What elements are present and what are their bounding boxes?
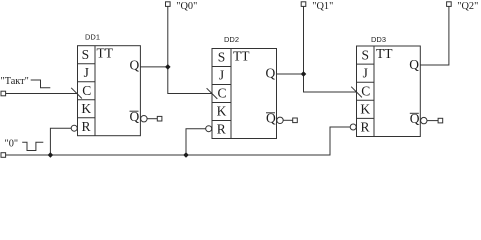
- junction node Q1: [301, 71, 307, 77]
- inversion bubble R (DD1): [71, 125, 77, 131]
- svg-text:Q: Q: [266, 65, 276, 80]
- terminal stub notQ DD3: [438, 118, 443, 123]
- svg-text:"Q2": "Q2": [457, 1, 478, 12]
- svg-text:"0": "0": [5, 139, 19, 150]
- inversion bubble notQ (DD3): [421, 117, 427, 123]
- svg-text:Q: Q: [409, 57, 419, 72]
- junction on bus at DD1 R: [48, 152, 54, 158]
- wire Q of DD3 to Q2 terminal: [420, 6, 449, 65]
- junction on bus at DD2 R: [183, 152, 189, 158]
- flip-flop DD1: [78, 46, 141, 136]
- terminal 0: [1, 153, 6, 158]
- wire Q of DD2 to node: [277, 73, 304, 75]
- svg-text:Q: Q: [130, 57, 140, 72]
- svg-text:C: C: [361, 84, 370, 99]
- svg-text:"Q1": "Q1": [312, 1, 333, 12]
- svg-text:R: R: [360, 120, 369, 135]
- wire bus to R of DD1: [50, 128, 71, 155]
- terminal stub notQ DD2: [293, 118, 298, 123]
- svg-text:K: K: [217, 104, 227, 119]
- pin notQ (DD1): [130, 109, 140, 124]
- terminal Q1: [301, 2, 306, 7]
- svg-text:K: K: [81, 101, 91, 116]
- inversion bubble R (DD3): [350, 124, 356, 130]
- flip-flop DD3: [357, 46, 421, 137]
- inversion bubble notQ (DD2): [277, 117, 283, 123]
- wire notQ stub DD2: [283, 119, 293, 121]
- pin notQ (DD2): [266, 111, 276, 126]
- svg-text:R: R: [81, 119, 90, 134]
- terminal Q2: [447, 2, 452, 7]
- svg-text:TT: TT: [97, 46, 114, 61]
- terminal Takt: [1, 91, 6, 96]
- svg-text:S: S: [218, 50, 226, 65]
- wire node up to Q0 terminal: [167, 6, 169, 67]
- svg-text:S: S: [362, 47, 370, 62]
- inversion bubble notQ (DD1): [141, 116, 147, 122]
- wire node down to C of DD3: [304, 74, 357, 92]
- svg-text:J: J: [84, 65, 89, 80]
- svg-text:DD2: DD2: [224, 35, 239, 44]
- wire bus to R of DD2: [186, 129, 206, 155]
- dynamic input marker C (DD2): [207, 88, 218, 99]
- wire node up to Q1 terminal: [303, 6, 305, 74]
- svg-text:DD3: DD3: [371, 35, 386, 44]
- svg-text:"Такт": "Такт": [1, 76, 29, 87]
- terminal Q0: [166, 2, 171, 7]
- waveform symbol 0: [22, 142, 43, 150]
- svg-text:K: K: [360, 102, 370, 117]
- terminal stub notQ DD1: [157, 116, 162, 121]
- inversion bubble R (DD2): [206, 126, 212, 132]
- dynamic input marker C (DD3): [351, 87, 362, 98]
- svg-text:J: J: [219, 68, 224, 83]
- svg-text:TT: TT: [376, 46, 393, 61]
- junction node Q0: [165, 64, 171, 70]
- dynamic input marker C (DD1): [71, 88, 82, 99]
- wire notQ stub DD1: [147, 118, 157, 120]
- wire 0 bus along bottom: [6, 127, 351, 155]
- svg-text:"Q0": "Q0": [176, 1, 197, 12]
- flip-flop DD2: [212, 49, 277, 139]
- svg-text:TT: TT: [233, 48, 250, 63]
- svg-text:S: S: [82, 47, 90, 62]
- wire Q of DD1 to node: [140, 66, 167, 68]
- svg-text:J: J: [363, 65, 368, 80]
- svg-text:DD1: DD1: [85, 33, 100, 42]
- wire notQ stub DD3: [427, 120, 438, 122]
- waveform symbol Takt: [31, 80, 51, 88]
- svg-text:C: C: [217, 86, 226, 101]
- pin notQ (DD3): [410, 111, 420, 126]
- svg-text:R: R: [217, 122, 226, 137]
- svg-text:C: C: [82, 83, 91, 98]
- wire node down to C of DD2: [168, 67, 212, 94]
- wire Takt input to C of DD1: [6, 93, 78, 95]
